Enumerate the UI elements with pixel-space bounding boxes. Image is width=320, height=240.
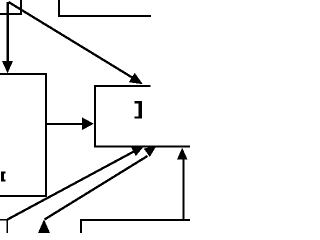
box left: bottom edge (0, 195, 47, 197)
box bottom-left (cropped): top edge (0, 219, 8, 221)
arrowhead right into middle box (82, 117, 94, 130)
box bottom-left: right edge (6, 219, 8, 233)
wire diagonal D1 (bottom-left corner up to middle box bottom) (8, 151, 135, 219)
wire vertical arrow shaft (bottom-right up) (183, 159, 185, 221)
label [ left bracket: bottom bar (1, 179, 6, 181)
label ] right bracket: top bar (135, 101, 142, 103)
wire diagonal D2 (triangle up to middle box bottom) (45, 156, 148, 220)
arrowhead D2 (up-right at long line) (144, 146, 157, 157)
box top-right: bottom edge (58, 15, 151, 17)
arrowhead of top-left diagonal (into middle box top) (129, 73, 143, 84)
box top-right (cropped): left edge (58, 0, 60, 17)
label ] right bracket: stem (139, 101, 143, 118)
arrowhead up cropped at bottom (vertical arrow from below) (38, 219, 50, 233)
box middle: left edge (94, 85, 96, 148)
wire diagonal from top-left to middle box (9, 2, 134, 78)
box top-left: bottom edge (0, 13, 22, 15)
box left: right edge (45, 73, 47, 197)
box bottom: top edge (81, 219, 191, 221)
label [ left bracket: stem (1, 171, 4, 181)
box top-left (cropped): right edge (20, 0, 22, 15)
wire vertical arrow shaft (top-left down) (6, 2, 9, 62)
wire long horizontal line (middle box bottom extended right) (94, 146, 190, 148)
box bottom: left edge (80, 219, 82, 233)
arrowhead D1 (up-right at long line) (131, 146, 144, 156)
label ] right bracket: bottom bar (135, 116, 142, 118)
box middle: top edge (94, 85, 151, 87)
arrowhead down into left box (2, 61, 13, 73)
label [ left bracket: top bar (1, 171, 6, 173)
wire horizontal arrow shaft (left box to middle box) (46, 123, 83, 125)
arrowhead up (bottom-right arrow) (177, 148, 188, 160)
box left (cropped): top edge (0, 73, 47, 75)
